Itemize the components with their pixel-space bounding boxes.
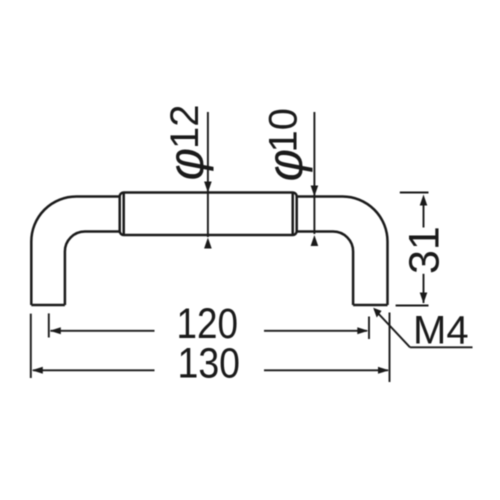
120 dim line left segment: [51, 330, 155, 332]
31 arrowhead down (bottom): [420, 293, 428, 304]
grip thick section (rounded rectangle): [120, 193, 297, 236]
handle left leg bottom edge: [31, 304, 65, 307]
phi10 arrowhead up (below thin bar): [311, 235, 319, 246]
svg-text:130: 130: [178, 339, 241, 387]
dimension line phi10 vertical: [313, 112, 315, 234]
phi10 arrowhead down (top of thin bar): [311, 186, 319, 197]
grip seam line right: [291, 193, 294, 236]
120 arrowhead right: [357, 327, 368, 334]
M4 leader arrowhead: [373, 308, 381, 318]
grip seam line left: [122, 193, 125, 236]
handle right thin section top edge: [297, 197, 388, 306]
120 dim extension line left center: [48, 313, 50, 337]
phi12 arrowhead down (top of grip): [204, 182, 212, 193]
120 dim extension line right center: [368, 317, 370, 340]
svg-text:12: 12: [163, 105, 207, 150]
svg-text:10: 10: [262, 108, 306, 153]
svg-text:φ: φ: [257, 149, 313, 182]
130 dim extension line left outer: [30, 314, 32, 378]
31 dim top tick: [400, 192, 429, 194]
130 dim line left segment: [33, 369, 155, 371]
31 arrowhead up (top): [420, 195, 428, 206]
svg-text:M4: M4: [413, 309, 469, 353]
handle left leg outer edge: [31, 197, 119, 306]
M4 leader horizontal: [410, 346, 473, 348]
31 dim line lower segment: [423, 274, 425, 303]
handle left leg inner edge: [65, 232, 120, 306]
120 dim line right segment: [264, 330, 367, 332]
svg-text:31: 31: [401, 226, 449, 274]
130 dim extension line right outer: [389, 313, 391, 383]
130 arrowhead right: [378, 367, 389, 374]
120 arrowhead left: [50, 327, 61, 334]
handle right thin section bottom edge: [297, 232, 353, 306]
M4 leader diagonal: [375, 310, 411, 348]
phi12 arrowhead up (below grip): [204, 238, 212, 249]
130 arrowhead left: [32, 367, 43, 374]
handle right leg bottom edge: [353, 304, 387, 307]
31 dim bottom tick: [396, 305, 429, 307]
31 dim line upper segment: [423, 198, 425, 228]
dimension line phi12 vertical: [207, 112, 209, 237]
130 dim line right segment: [264, 369, 388, 371]
svg-text:φ: φ: [158, 148, 214, 181]
